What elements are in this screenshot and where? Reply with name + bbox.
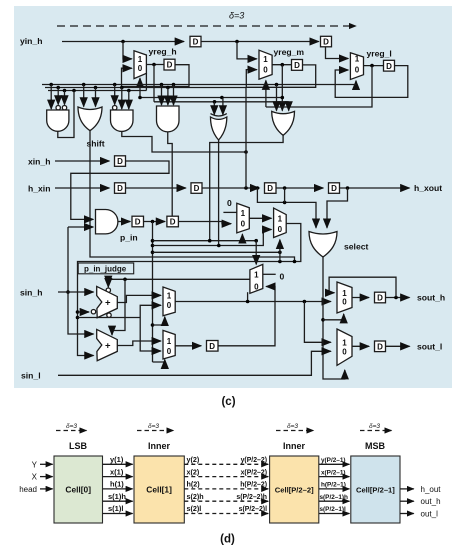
bus P bbox=[140, 97, 282, 99]
wire p_in D1 to D2 bbox=[144, 221, 166, 223]
wire yin_h tap to yreg_m input 1 bbox=[237, 42, 257, 59]
wire adder2 output to mux E input 1 bbox=[117, 341, 161, 346]
svg-text:1: 1 bbox=[167, 291, 172, 300]
junction mux C select tap bbox=[254, 239, 258, 243]
svg-text:D: D bbox=[167, 61, 173, 70]
svg-text:(c): (c) bbox=[221, 396, 235, 408]
wire yreg_m select bbox=[265, 81, 267, 108]
svg-text:Cell[P/2–1]: Cell[P/2–1] bbox=[356, 486, 395, 495]
svg-text:h_xout: h_xout bbox=[414, 183, 442, 193]
mux D bbox=[163, 287, 175, 316]
wire select OR input 2 bbox=[327, 188, 348, 228]
wire h_xout output bbox=[340, 187, 410, 189]
junction sin_h tap on riser bbox=[66, 290, 70, 294]
junction mux B line taps bbox=[278, 260, 282, 264]
svg-text:D: D bbox=[331, 184, 337, 193]
svg-text:y(1): y(1) bbox=[110, 455, 124, 464]
wire mux C bottom tap to sum line bbox=[247, 292, 249, 301]
svg-text:x(2): x(2) bbox=[187, 467, 200, 476]
svg-text:0: 0 bbox=[278, 225, 283, 234]
cell Cell[P/2-1] bbox=[351, 456, 400, 523]
svg-text:h(2): h(2) bbox=[187, 480, 201, 489]
cell Cell[1] bbox=[134, 456, 184, 523]
wire G1 input drops bbox=[50, 85, 52, 110]
wire adder1 output to mux D input 1 bbox=[117, 295, 161, 302]
gate p_in AND bbox=[96, 210, 118, 234]
wire G2 output (shift) bbox=[90, 131, 295, 262]
mux yreg_h bbox=[134, 51, 146, 79]
wire mux C output to adder tops bbox=[108, 279, 250, 287]
wire line y317.5 to mux D/E inputs bbox=[78, 317, 141, 319]
svg-text:xin_h: xin_h bbox=[28, 156, 50, 166]
wire mux C select bbox=[255, 241, 257, 265]
svg-text:sout_h: sout_h bbox=[417, 293, 445, 303]
wire mux E delayed to mux C input 0 bbox=[218, 287, 275, 346]
adder U2 bbox=[97, 329, 118, 360]
wire yreg_h output bbox=[146, 64, 164, 66]
wire s(1)h bbox=[103, 500, 133, 502]
wire adder2 top feed bbox=[112, 279, 125, 335]
svg-text:0: 0 bbox=[241, 219, 246, 228]
wire D2 output to yreg_l input 1 bbox=[326, 47, 349, 59]
wire mux D select bbox=[153, 317, 165, 325]
D flip-flop (h_xin delay 4) bbox=[329, 183, 340, 194]
delta arrow over Cell[P/2-1] bbox=[360, 430, 392, 432]
wire h_xin bbox=[55, 187, 109, 189]
svg-text:s(P/2–2)l: s(P/2–2)l bbox=[239, 506, 267, 513]
dashed delay line (top) bbox=[57, 25, 356, 27]
wire yreg_h output drop bbox=[153, 65, 155, 102]
svg-text:LSB: LSB bbox=[69, 441, 88, 451]
wire yreg_l output long loop to yreg_m select bbox=[266, 66, 372, 107]
svg-text:D: D bbox=[294, 61, 300, 70]
wire input X bbox=[40, 476, 53, 478]
wire h_xin D2 to D3 bbox=[203, 187, 260, 189]
svg-text:head: head bbox=[19, 485, 37, 494]
mux C (mirrored) bbox=[250, 264, 263, 293]
D flip-flop (h_xin delay 1) bbox=[115, 183, 126, 194]
wire sout_h feedback loop to mux F input 1 bbox=[329, 277, 396, 297]
wire h_xin delayed drop bbox=[284, 188, 286, 202]
wire h_out bbox=[400, 488, 414, 490]
svg-text:D: D bbox=[117, 184, 123, 193]
svg-text:0: 0 bbox=[342, 347, 347, 356]
svg-text:1: 1 bbox=[278, 215, 283, 224]
wire line y252.3 to mux B select bbox=[153, 251, 280, 253]
gate G2 OR (shift) bbox=[78, 107, 102, 131]
wire yreg_l output bbox=[364, 65, 384, 67]
wire yreg_l select bbox=[355, 81, 357, 85]
wire constant 0 into mux A input 1 bbox=[223, 211, 236, 213]
svg-text:s(2)h: s(2)h bbox=[187, 492, 204, 501]
wire mux F output bbox=[352, 297, 369, 299]
svg-text:D: D bbox=[193, 38, 199, 47]
D flip-flop (sout_l) bbox=[375, 341, 386, 352]
svg-text:h_out: h_out bbox=[421, 485, 442, 494]
junction mux D output tap bbox=[303, 300, 307, 304]
wire yin_h to yreg_h input 1 bbox=[123, 42, 132, 59]
svg-text:1: 1 bbox=[254, 270, 259, 279]
wire mux A output to mux B input 1 bbox=[249, 217, 271, 219]
junction h_xout tap bbox=[346, 186, 350, 190]
svg-text:δ=3: δ=3 bbox=[229, 11, 244, 21]
mux yreg_l bbox=[350, 53, 363, 80]
svg-text:s(P/2–1)l: s(P/2–1)l bbox=[320, 506, 347, 513]
junction mux C output tap bbox=[123, 278, 127, 282]
mux E bbox=[163, 330, 175, 359]
bus Q bbox=[154, 101, 289, 103]
svg-text:yreg_m: yreg_m bbox=[274, 47, 305, 57]
svg-text:0: 0 bbox=[138, 64, 143, 73]
D flip-flop (p_in delay 1) bbox=[132, 216, 144, 227]
wire x(2) dashed bbox=[184, 476, 262, 478]
svg-text:(d): (d) bbox=[220, 534, 235, 546]
junction h_xin bus tap bbox=[244, 186, 248, 190]
wire input head bbox=[40, 488, 53, 490]
bubble G1 input 2 bbox=[56, 106, 60, 110]
svg-text:x(P/2–1): x(P/2–1) bbox=[321, 469, 346, 476]
wire yreg_m feedback loop bbox=[246, 65, 315, 87]
gate G6 OR bbox=[272, 111, 295, 135]
svg-text:y(P/2–1): y(P/2–1) bbox=[321, 457, 346, 464]
D flip-flop (h_xin delay 3) bbox=[265, 183, 277, 194]
wire y(2) dashed bbox=[184, 463, 262, 465]
wire s(P/2-1)h bbox=[319, 500, 350, 502]
figure (c) background panel bbox=[14, 6, 452, 388]
junction select distribution taps bbox=[151, 239, 155, 243]
svg-text:0: 0 bbox=[167, 347, 172, 356]
wire p_in_judge result riser bbox=[68, 227, 94, 334]
cell Cell[P/2-2] bbox=[270, 456, 319, 523]
wire mux B output feedback to adders bbox=[78, 224, 301, 356]
wire y(P/2-1) bbox=[319, 463, 350, 465]
svg-text:x(P/2–2): x(P/2–2) bbox=[241, 469, 267, 476]
junction p_in delayed tap bbox=[151, 220, 155, 224]
bubble G3 input 1 bbox=[113, 106, 117, 110]
wire out_l bbox=[400, 513, 414, 515]
D flip-flop (yin_h delay 1) bbox=[190, 36, 201, 47]
junction yreg_m output bbox=[281, 63, 285, 67]
svg-text:1: 1 bbox=[138, 55, 143, 64]
bus h2 bbox=[45, 87, 246, 89]
wire G5 input drops bbox=[213, 102, 215, 115]
svg-text:1: 1 bbox=[263, 55, 268, 64]
delta arrow over Cell[1] bbox=[137, 430, 174, 432]
gate G4 AND bbox=[157, 106, 180, 132]
D flip-flop (sout_h) bbox=[375, 292, 386, 303]
bubble adder1 top input bbox=[106, 288, 110, 292]
adder U1 bbox=[97, 286, 118, 317]
wire G3 output bbox=[122, 131, 246, 152]
svg-text:sout_l: sout_l bbox=[417, 342, 442, 352]
wire line y245.5 to mux B input 0 bbox=[153, 230, 272, 246]
junction mux C bottom tap bbox=[246, 300, 250, 304]
wire yreg_h feedback loop bbox=[122, 65, 190, 87]
junction G6 output on select line bbox=[208, 239, 212, 243]
wire mux E select bbox=[153, 360, 165, 362]
bus h3 bbox=[48, 90, 146, 92]
wire sin_l to mux G input 0 bbox=[58, 351, 331, 375]
wire select line y240.7 bbox=[153, 240, 257, 242]
wire h(1) bbox=[103, 488, 133, 490]
svg-text:h(1): h(1) bbox=[110, 480, 124, 489]
wire G2 input drops bbox=[83, 85, 85, 107]
wire input Y bbox=[40, 463, 53, 465]
mux G (sout_l) bbox=[337, 329, 352, 365]
mux yreg_m bbox=[259, 50, 272, 79]
wire adder1 top input (inverted) bbox=[107, 279, 109, 285]
wire yreg_h stub to bus h3 bbox=[145, 73, 147, 91]
svg-text:h(P/2–1): h(P/2–1) bbox=[321, 482, 346, 489]
wire mux D output to sout muxes bbox=[175, 301, 331, 303]
wire h_xin D3 to D4 bbox=[276, 187, 323, 189]
wire constant 0 stub into mux C input 1 bbox=[263, 273, 276, 275]
wire sin_h bbox=[58, 291, 94, 293]
wire p_in select distribution vertical bbox=[152, 222, 154, 363]
wire h_xin D1 to D2 bbox=[126, 187, 186, 189]
svg-text:+: + bbox=[105, 341, 111, 352]
wire xin_h bbox=[55, 160, 109, 162]
wire sout_l output bbox=[386, 345, 410, 347]
svg-text:0: 0 bbox=[227, 198, 232, 208]
gate select OR bbox=[309, 232, 337, 258]
gate G5 XOR bbox=[211, 114, 227, 116]
bubble adder1 input 2 bbox=[91, 310, 95, 314]
wire adder1 input 2 (inverted) bbox=[78, 311, 90, 313]
wire s(P/2-1)l bbox=[319, 513, 350, 515]
wire select OR output distribution bbox=[323, 257, 345, 379]
wire G1 output bbox=[58, 91, 74, 138]
svg-text:sin_h: sin_h bbox=[20, 287, 42, 297]
wire mux F select bbox=[323, 314, 344, 320]
wire yreg_m output bbox=[272, 64, 291, 66]
junction yin_h tap for yreg_h bbox=[121, 40, 125, 44]
svg-text:1: 1 bbox=[342, 338, 347, 347]
wire mux E output bbox=[175, 345, 201, 347]
svg-text:0: 0 bbox=[280, 272, 285, 282]
wire xin_h delayed to p_in input 1 bbox=[71, 161, 169, 219]
D flip-flop (xin_h delay) bbox=[115, 156, 126, 167]
svg-text:y(2): y(2) bbox=[187, 455, 200, 464]
svg-text:s(1)l: s(1)l bbox=[108, 504, 123, 513]
svg-text:yin_h: yin_h bbox=[20, 36, 42, 46]
wire x(P/2-1) bbox=[319, 476, 350, 478]
svg-text:Inner: Inner bbox=[283, 441, 306, 451]
svg-text:y(P/2–2): y(P/2–2) bbox=[241, 457, 267, 464]
wire mux D input 0 bbox=[140, 305, 161, 317]
wire y(1) bbox=[103, 463, 133, 465]
junction G3 output to yreg tap bbox=[244, 150, 248, 154]
junction on select line bbox=[283, 201, 287, 205]
wire G6 output bbox=[210, 135, 283, 240]
svg-text:δ=3: δ=3 bbox=[287, 423, 298, 430]
wire s(2)h dashed bbox=[184, 500, 262, 502]
svg-text:δ=3: δ=3 bbox=[369, 423, 380, 430]
delta arrow over Cell[0] bbox=[56, 430, 87, 432]
svg-text:0: 0 bbox=[167, 301, 172, 310]
bubble G1 input 3 bbox=[62, 106, 66, 110]
junction G5 output on y245.5 bbox=[217, 244, 221, 248]
svg-text:select: select bbox=[344, 242, 369, 252]
junction select to mux F bbox=[321, 318, 325, 322]
svg-text:+: + bbox=[105, 298, 111, 309]
svg-text:D: D bbox=[170, 218, 176, 227]
D flip-flop (p_in delay 2) bbox=[167, 216, 179, 227]
junction yin_h tap for yreg_m bbox=[235, 40, 239, 44]
junction h_xin delayed tap bbox=[283, 186, 287, 190]
svg-text:0: 0 bbox=[254, 282, 259, 291]
svg-text:sin_l: sin_l bbox=[21, 370, 41, 380]
D flip-flop (yreg_l) bbox=[384, 60, 395, 71]
wire mux A select bbox=[241, 234, 243, 241]
svg-text:Cell[1]: Cell[1] bbox=[146, 485, 172, 495]
wire h(P/2-1) bbox=[319, 488, 350, 490]
svg-text:Inner: Inner bbox=[148, 441, 171, 451]
gate G1 AND bbox=[47, 110, 69, 131]
svg-text:D: D bbox=[377, 294, 383, 303]
wire G6 input drops bbox=[276, 85, 278, 111]
svg-text:D: D bbox=[386, 62, 392, 71]
svg-text:yreg_h: yreg_h bbox=[149, 46, 177, 56]
wire p_in output bbox=[118, 221, 130, 223]
wire yin_h bbox=[62, 41, 184, 43]
svg-text:MSB: MSB bbox=[365, 441, 386, 451]
svg-text:x(1): x(1) bbox=[110, 467, 124, 476]
cell Cell[0] bbox=[54, 456, 103, 523]
svg-text:yreg_l: yreg_l bbox=[367, 49, 392, 59]
svg-text:0: 0 bbox=[355, 65, 360, 74]
svg-text:shift: shift bbox=[87, 139, 105, 149]
svg-text:D: D bbox=[209, 342, 215, 351]
D flip-flop (h_xin delay 2) bbox=[191, 183, 202, 194]
svg-text:p_in: p_in bbox=[120, 233, 138, 243]
wire G3 input drops bbox=[114, 85, 116, 105]
wire mux D output to mux G input 1 bbox=[304, 302, 330, 343]
wire G4 input drops bbox=[161, 85, 163, 105]
junction select tap on h_xin bbox=[256, 186, 260, 190]
svg-text:δ=3: δ=3 bbox=[66, 423, 77, 430]
D flip-flop (yin_h delay 2) bbox=[321, 36, 332, 47]
svg-text:0: 0 bbox=[342, 297, 347, 306]
D flip-flop (yreg_m) bbox=[292, 60, 303, 71]
svg-text:X: X bbox=[32, 473, 38, 482]
bubble adder1 bottom output bbox=[107, 313, 111, 317]
wire mux G output bbox=[352, 345, 369, 347]
mux B bbox=[274, 208, 287, 237]
wire yreg_h select bbox=[139, 78, 141, 97]
mux A bbox=[237, 203, 250, 233]
svg-text:s(P/2–1)h: s(P/2–1)h bbox=[320, 494, 349, 501]
D flip-flop (yreg_h) bbox=[164, 59, 175, 70]
svg-text:h(P/2–2): h(P/2–2) bbox=[240, 482, 267, 489]
svg-text:1: 1 bbox=[355, 55, 360, 64]
junction yreg_h output bbox=[152, 63, 156, 67]
wire yreg_m output drop to gate G6 bbox=[281, 65, 283, 111]
junction bus dots bbox=[49, 83, 53, 87]
svg-text:δ=3: δ=3 bbox=[148, 423, 159, 430]
wire select OR input 1 bbox=[257, 188, 316, 228]
gate G3 AND bbox=[111, 110, 134, 131]
wire p_in input 2 bbox=[68, 226, 93, 228]
wire G4 output bbox=[168, 132, 172, 216]
svg-text:Cell[0]: Cell[0] bbox=[65, 485, 91, 495]
svg-text:D: D bbox=[377, 342, 383, 351]
svg-text:0: 0 bbox=[263, 66, 268, 75]
wire s(2)l dashed bbox=[184, 513, 262, 515]
svg-text:out_l: out_l bbox=[421, 510, 439, 519]
wire h(2) dashed bbox=[184, 488, 262, 490]
wire adder1 bottom bubble tap bbox=[108, 316, 110, 318]
wire mux B select bbox=[279, 240, 281, 262]
svg-text:s(1)h: s(1)h bbox=[108, 492, 126, 501]
wire yreg_l feedback loop bbox=[335, 66, 408, 98]
svg-text:out_h: out_h bbox=[421, 497, 441, 506]
svg-text:1: 1 bbox=[241, 209, 246, 218]
wire sout_h output bbox=[386, 297, 410, 299]
svg-text:h_xin: h_xin bbox=[28, 183, 50, 193]
bus h1 bbox=[42, 84, 356, 86]
wire out_h bbox=[400, 500, 414, 502]
svg-text:1: 1 bbox=[167, 337, 172, 346]
svg-text:s(P/2–2)h: s(P/2–2)h bbox=[236, 494, 267, 501]
wire mux E input 0 bbox=[140, 318, 161, 352]
wire p_in delayed to mux A input 0 bbox=[178, 222, 231, 224]
box p_in_judge bbox=[78, 263, 134, 274]
wire x(1) bbox=[103, 476, 133, 478]
junction yreg_l output bbox=[370, 64, 374, 68]
svg-text:p_in_judge: p_in_judge bbox=[84, 264, 127, 273]
junction sout_h feedback tap bbox=[394, 296, 398, 300]
svg-text:Cell[P/2–2]: Cell[P/2–2] bbox=[275, 486, 314, 495]
svg-text:Y: Y bbox=[32, 460, 38, 469]
svg-text:D: D bbox=[135, 218, 141, 227]
wire G5 output bbox=[218, 140, 220, 246]
wire bus h2 drop to h_xin bbox=[245, 88, 247, 189]
svg-text:D: D bbox=[194, 184, 200, 193]
svg-text:s(2)l: s(2)l bbox=[187, 504, 202, 513]
wire s(1)l bbox=[103, 513, 133, 515]
delta arrow over Cell[P/2-2] bbox=[276, 430, 314, 432]
mux F (sout_h) bbox=[337, 282, 352, 313]
wire D1 to D2 bbox=[201, 41, 319, 43]
svg-text:D: D bbox=[117, 157, 123, 166]
D flip-flop (mux E delay) bbox=[207, 341, 219, 352]
svg-text:D: D bbox=[323, 38, 329, 47]
svg-text:D: D bbox=[267, 184, 273, 193]
